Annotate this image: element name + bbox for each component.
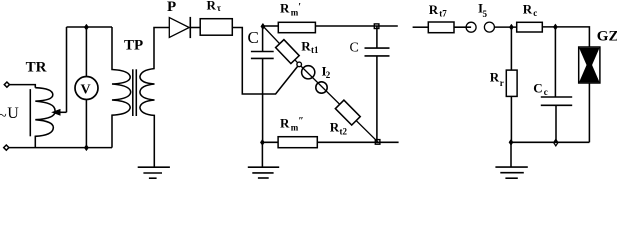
- svg-text:R: R: [301, 38, 311, 53]
- svg-text:TR: TR: [26, 60, 47, 76]
- svg-text:V: V: [81, 83, 91, 98]
- svg-text:c: c: [533, 8, 537, 18]
- svg-text:~: ~: [0, 108, 7, 124]
- svg-text:t2: t2: [340, 127, 348, 137]
- svg-text:U: U: [7, 105, 19, 122]
- svg-text:r: r: [500, 78, 504, 88]
- svg-text:R: R: [490, 70, 500, 85]
- svg-text:τ: τ: [217, 3, 222, 13]
- svg-text:C: C: [248, 28, 259, 47]
- svg-text:2: 2: [326, 70, 331, 80]
- svg-text:C: C: [533, 81, 542, 96]
- svg-text:TP: TP: [124, 38, 143, 54]
- svg-text:t1: t1: [311, 45, 319, 55]
- svg-text:C: C: [350, 41, 359, 56]
- svg-text:R: R: [207, 0, 217, 13]
- svg-text:′: ′: [298, 2, 301, 13]
- svg-text:R: R: [280, 116, 290, 131]
- svg-text:5: 5: [483, 9, 488, 19]
- svg-text:P: P: [167, 0, 176, 15]
- svg-text:″: ″: [298, 116, 304, 127]
- svg-text:GZ: GZ: [597, 29, 617, 45]
- svg-text:t7: t7: [439, 9, 447, 19]
- svg-text:R: R: [330, 120, 340, 135]
- svg-text:c: c: [544, 87, 548, 97]
- svg-text:R: R: [523, 2, 533, 17]
- svg-text:R: R: [429, 2, 439, 17]
- svg-text:R: R: [280, 1, 290, 16]
